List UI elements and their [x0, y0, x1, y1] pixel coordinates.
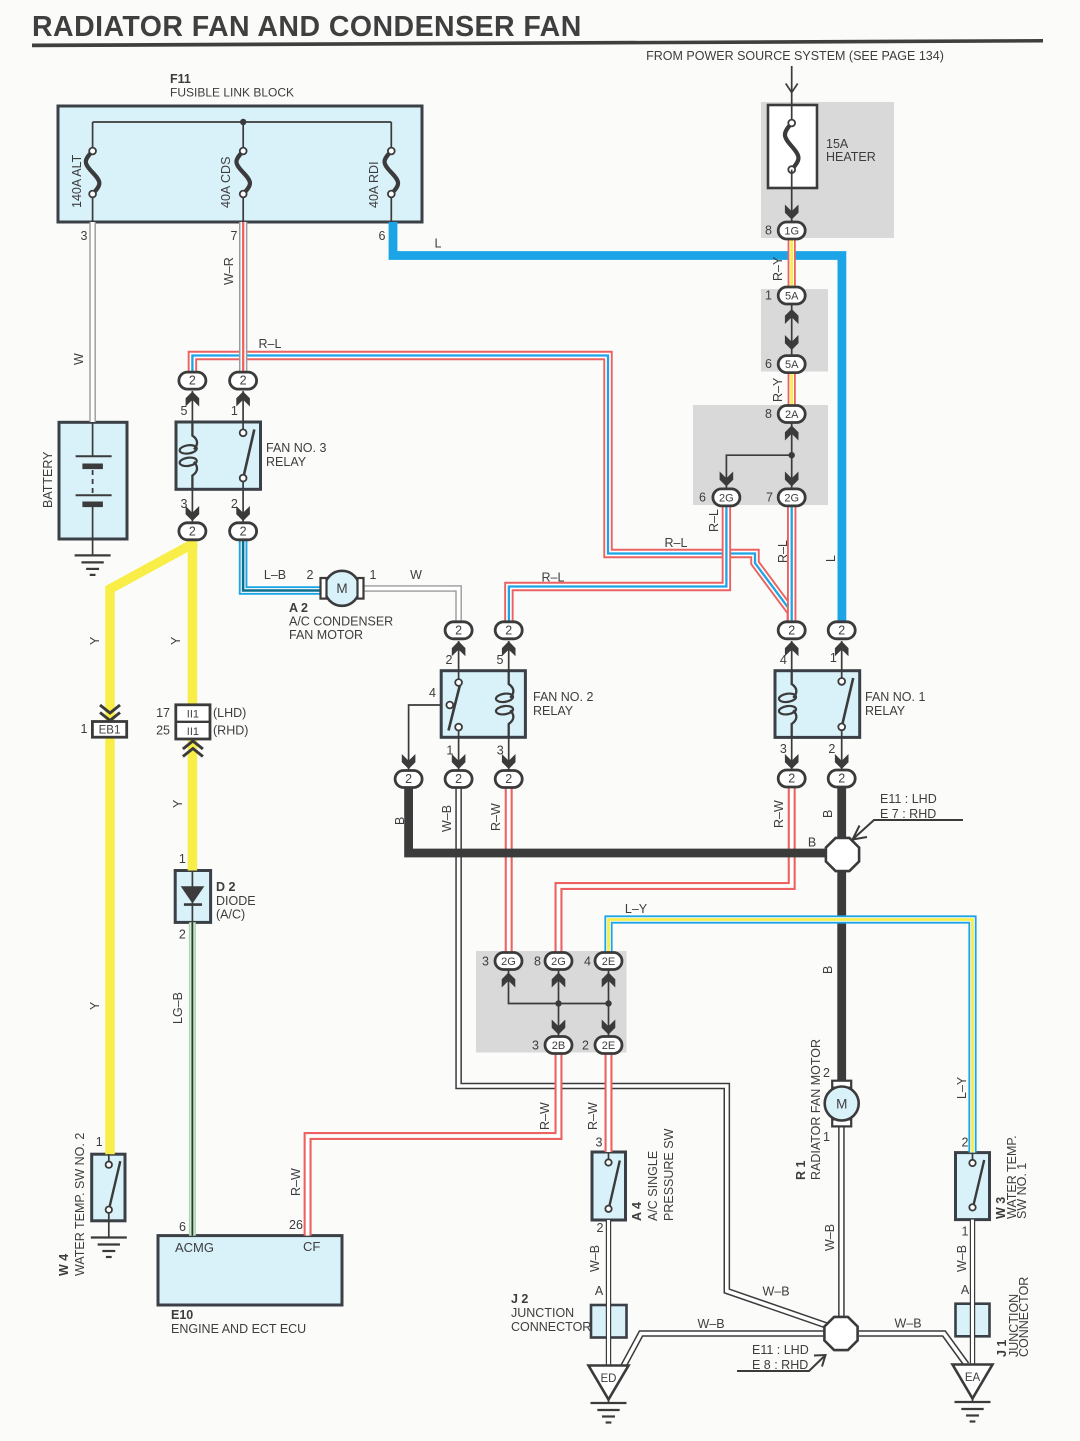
svg-text:40A RDI: 40A RDI [367, 161, 381, 208]
svg-text:2G: 2G [719, 492, 734, 504]
svg-text:ACMG: ACMG [175, 1240, 214, 1255]
svg-text:A/C SINGLE: A/C SINGLE [646, 1151, 660, 1221]
svg-text:4: 4 [429, 686, 436, 700]
svg-text:L: L [824, 555, 838, 562]
svg-text:FAN MOTOR: FAN MOTOR [289, 628, 363, 642]
svg-text:EA: EA [965, 1372, 981, 1384]
svg-text:1: 1 [179, 852, 186, 866]
svg-text:E 7 : RHD: E 7 : RHD [880, 807, 936, 821]
svg-text:ED: ED [601, 1373, 617, 1385]
svg-text:(A/C): (A/C) [216, 908, 245, 922]
svg-text:R–L: R–L [542, 571, 565, 585]
svg-text:(LHD): (LHD) [213, 706, 246, 720]
svg-text:1: 1 [231, 404, 238, 418]
svg-text:FAN NO. 1: FAN NO. 1 [865, 690, 925, 704]
svg-text:2: 2 [405, 772, 412, 786]
svg-text:2: 2 [505, 623, 512, 637]
svg-text:2: 2 [455, 772, 462, 786]
svg-text:2: 2 [838, 772, 845, 786]
svg-text:L–Y: L–Y [625, 902, 648, 916]
svg-text:DIODE: DIODE [216, 894, 256, 908]
svg-text:1: 1 [830, 651, 837, 665]
svg-text:CONNECTOR: CONNECTOR [511, 1320, 591, 1334]
svg-text:4: 4 [584, 955, 591, 969]
svg-text:A/C CONDENSER: A/C CONDENSER [289, 615, 393, 629]
svg-text:2: 2 [505, 772, 512, 786]
svg-text:JUNCTION: JUNCTION [511, 1306, 574, 1320]
svg-text:E 8 : RHD: E 8 : RHD [752, 1358, 808, 1372]
svg-text:E10: E10 [171, 1308, 193, 1322]
svg-text:R–W: R–W [772, 800, 786, 828]
svg-text:B: B [821, 966, 835, 974]
svg-text:3: 3 [482, 955, 489, 969]
svg-text:W–B: W–B [894, 1317, 921, 1331]
svg-text:A 2: A 2 [289, 601, 308, 615]
svg-text:W–B: W–B [440, 805, 454, 832]
svg-text:E11 : LHD: E11 : LHD [752, 1343, 809, 1357]
svg-text:W–B: W–B [955, 1245, 969, 1272]
svg-text:1: 1 [370, 568, 377, 582]
svg-text:RELAY: RELAY [266, 455, 307, 469]
svg-text:R–W: R–W [289, 1168, 303, 1196]
svg-text:RADIATOR FAN MOTOR: RADIATOR FAN MOTOR [809, 1039, 823, 1180]
svg-text:1: 1 [96, 1135, 103, 1149]
svg-text:1: 1 [446, 744, 453, 758]
svg-text:5A: 5A [785, 291, 799, 303]
svg-text:3: 3 [497, 744, 504, 758]
svg-text:RADIATOR FAN AND CONDENSER FAN: RADIATOR FAN AND CONDENSER FAN [32, 11, 582, 43]
svg-text:2G: 2G [551, 956, 566, 968]
svg-text:A: A [595, 1284, 604, 1298]
svg-text:Y: Y [88, 636, 102, 645]
svg-text:A: A [961, 1283, 970, 1297]
svg-text:140A ALT: 140A ALT [70, 154, 84, 208]
svg-text:LG–B: LG–B [171, 992, 185, 1024]
svg-text:R–W: R–W [586, 1102, 600, 1130]
svg-text:1: 1 [823, 1130, 830, 1144]
svg-text:Y: Y [88, 1001, 102, 1010]
svg-text:FROM POWER SOURCE SYSTEM (SEE: FROM POWER SOURCE SYSTEM (SEE PAGE 134) [646, 49, 944, 63]
svg-text:(RHD): (RHD) [213, 724, 248, 738]
svg-text:2: 2 [189, 524, 196, 538]
svg-text:15A: 15A [826, 137, 849, 151]
svg-text:1: 1 [81, 722, 88, 736]
svg-text:FAN NO. 3: FAN NO. 3 [266, 441, 326, 455]
svg-text:R–L: R–L [259, 337, 282, 351]
svg-text:7: 7 [766, 491, 773, 505]
svg-text:2A: 2A [785, 409, 799, 421]
svg-text:B: B [393, 817, 407, 825]
svg-text:3: 3 [780, 742, 787, 756]
svg-text:R–W: R–W [538, 1102, 552, 1130]
svg-text:II1: II1 [187, 709, 199, 721]
svg-text:2B: 2B [552, 1040, 565, 1052]
svg-text:R–L: R–L [665, 536, 688, 550]
svg-text:D 2: D 2 [216, 880, 236, 894]
svg-text:RELAY: RELAY [533, 704, 574, 718]
svg-text:II1: II1 [187, 726, 199, 738]
svg-text:R–L: R–L [707, 509, 721, 532]
svg-text:5: 5 [497, 653, 504, 667]
svg-text:L–Y: L–Y [955, 1076, 969, 1099]
svg-text:3: 3 [181, 497, 188, 511]
svg-text:M: M [836, 1096, 847, 1111]
svg-text:Y: Y [171, 799, 185, 808]
svg-text:2: 2 [240, 524, 247, 538]
svg-text:L: L [435, 237, 442, 251]
svg-text:6: 6 [379, 229, 386, 243]
svg-text:6: 6 [179, 1220, 186, 1234]
svg-text:4: 4 [780, 653, 787, 667]
svg-text:BATTERY: BATTERY [41, 451, 55, 508]
svg-text:40A CDS: 40A CDS [219, 157, 233, 208]
svg-text:W–B: W–B [762, 1285, 789, 1299]
svg-text:J 2: J 2 [511, 1292, 528, 1306]
svg-text:R–L: R–L [776, 540, 790, 563]
svg-text:1: 1 [962, 1225, 969, 1239]
svg-text:2: 2 [788, 772, 795, 786]
svg-text:CONNECTOR: CONNECTOR [1017, 1277, 1031, 1357]
svg-text:W–B: W–B [697, 1317, 724, 1331]
svg-text:2E: 2E [602, 956, 615, 968]
svg-text:2: 2 [179, 928, 186, 942]
svg-text:CF: CF [303, 1239, 320, 1254]
svg-text:B: B [821, 810, 835, 818]
svg-text:3: 3 [81, 229, 88, 243]
svg-text:B: B [808, 836, 816, 850]
svg-text:A 4: A 4 [630, 1202, 644, 1221]
svg-text:2: 2 [189, 374, 196, 388]
svg-text:R–W: R–W [489, 803, 503, 831]
svg-text:2G: 2G [784, 492, 799, 504]
svg-text:SW NO. 1: SW NO. 1 [1015, 1163, 1029, 1219]
svg-text:L–B: L–B [264, 568, 286, 582]
svg-text:17: 17 [156, 706, 170, 720]
svg-text:2: 2 [446, 653, 453, 667]
svg-text:6: 6 [765, 357, 772, 371]
svg-text:5A: 5A [785, 359, 799, 371]
svg-text:1G: 1G [784, 226, 799, 238]
svg-text:W–B: W–B [823, 1224, 837, 1251]
svg-text:WATER TEMP. SW NO. 2: WATER TEMP. SW NO. 2 [73, 1133, 87, 1276]
svg-text:R–Y: R–Y [771, 377, 785, 402]
svg-text:3: 3 [532, 1039, 539, 1053]
svg-text:25: 25 [156, 724, 170, 738]
svg-text:M: M [336, 581, 347, 596]
svg-text:W–R: W–R [222, 257, 236, 285]
svg-text:1: 1 [765, 289, 772, 303]
svg-text:R–Y: R–Y [771, 256, 785, 281]
svg-text:HEATER: HEATER [826, 150, 876, 164]
svg-text:2: 2 [828, 742, 835, 756]
svg-text:E11 : LHD: E11 : LHD [880, 792, 937, 806]
svg-text:2G: 2G [501, 956, 516, 968]
svg-text:3: 3 [596, 1136, 603, 1150]
svg-text:8: 8 [765, 407, 772, 421]
svg-text:W–B: W–B [588, 1245, 602, 1272]
svg-text:2: 2 [455, 623, 462, 637]
svg-text:2: 2 [307, 568, 314, 582]
svg-text:7: 7 [231, 229, 238, 243]
svg-text:2: 2 [838, 623, 845, 637]
svg-text:2: 2 [788, 623, 795, 637]
svg-text:W: W [72, 353, 86, 365]
svg-text:2: 2 [823, 1066, 830, 1080]
svg-text:FAN NO. 2: FAN NO. 2 [533, 690, 593, 704]
svg-text:2: 2 [962, 1136, 969, 1150]
svg-text:2: 2 [597, 1221, 604, 1235]
svg-text:5: 5 [181, 404, 188, 418]
svg-text:FUSIBLE LINK BLOCK: FUSIBLE LINK BLOCK [170, 86, 294, 100]
svg-text:R 1: R 1 [794, 1161, 808, 1181]
svg-text:PRESSURE SW: PRESSURE SW [662, 1128, 676, 1221]
svg-text:2: 2 [582, 1039, 589, 1053]
svg-text:2E: 2E [602, 1040, 615, 1052]
svg-text:26: 26 [289, 1218, 303, 1232]
svg-text:8: 8 [765, 224, 772, 238]
svg-text:EB1: EB1 [99, 725, 121, 737]
svg-text:RELAY: RELAY [865, 704, 906, 718]
svg-text:8: 8 [534, 955, 541, 969]
svg-text:Y: Y [169, 636, 183, 645]
svg-text:W 4: W 4 [57, 1254, 71, 1276]
svg-text:2: 2 [240, 374, 247, 388]
svg-text:F11: F11 [170, 72, 191, 86]
svg-text:W: W [410, 568, 422, 582]
svg-text:6: 6 [699, 491, 706, 505]
svg-text:2: 2 [231, 497, 238, 511]
svg-text:ENGINE AND ECT ECU: ENGINE AND ECT ECU [171, 1322, 306, 1336]
